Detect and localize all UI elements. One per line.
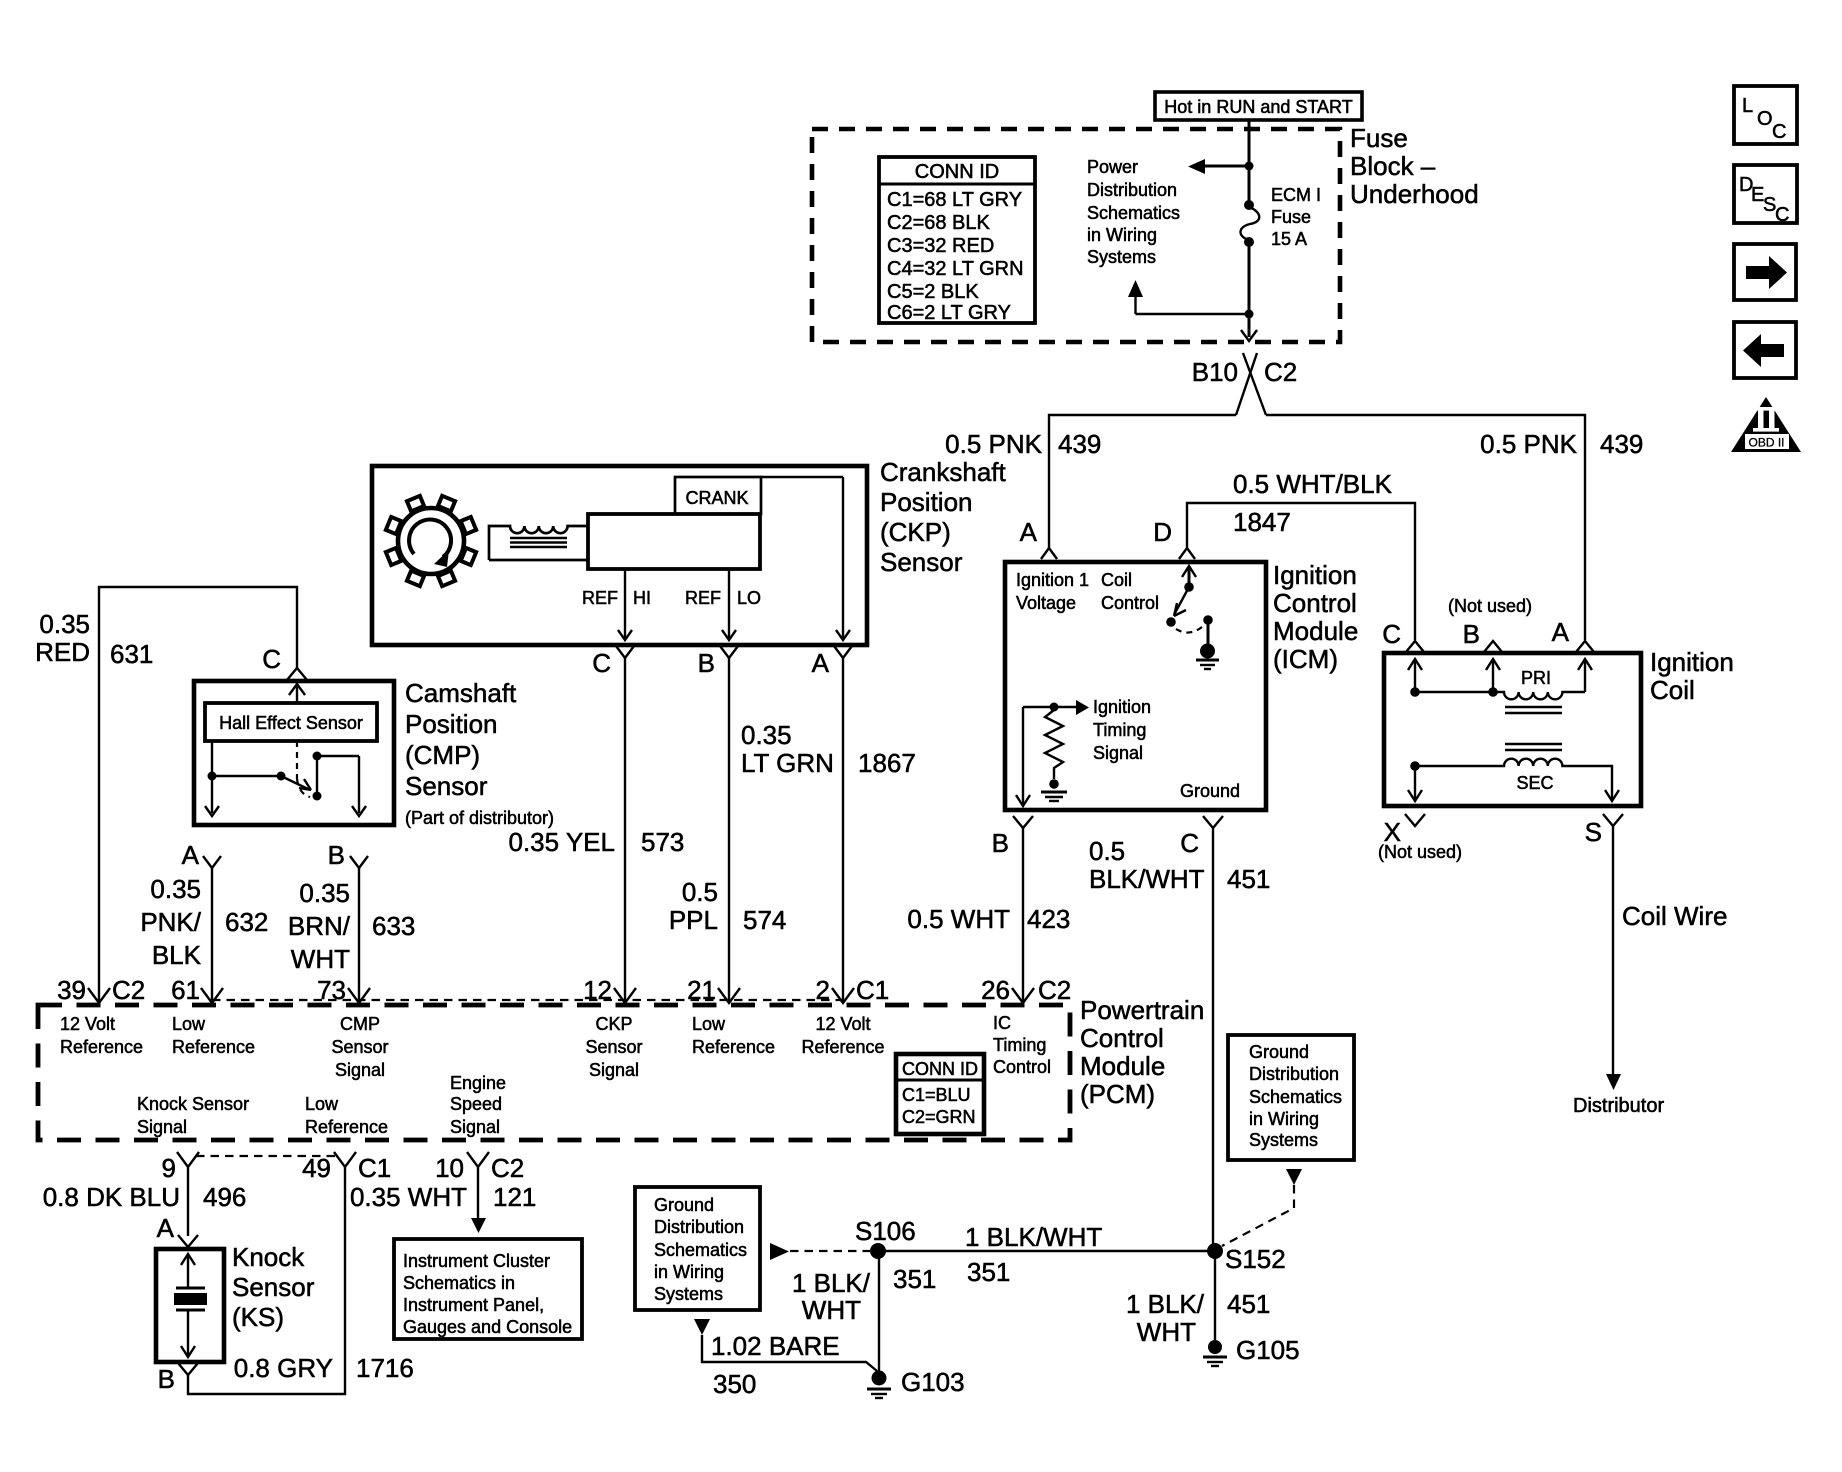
svg-text:C: C: [262, 644, 281, 674]
svg-text:Knock Sensor: Knock Sensor: [137, 1094, 249, 1114]
svg-text:Camshaft: Camshaft: [405, 678, 517, 708]
svg-text:C: C: [1180, 828, 1199, 858]
svg-text:(CMP): (CMP): [405, 740, 480, 770]
svg-text:Coil Wire: Coil Wire: [1622, 901, 1727, 931]
svg-text:Reference: Reference: [801, 1037, 884, 1057]
svg-text:Hot in RUN and START: Hot in RUN and START: [1164, 97, 1352, 117]
svg-text:CONN ID: CONN ID: [902, 1059, 978, 1079]
svg-text:0.35: 0.35: [39, 609, 90, 639]
svg-text:C2: C2: [491, 1153, 524, 1183]
svg-text:Systems: Systems: [654, 1284, 723, 1304]
svg-text:Hall Effect Sensor: Hall Effect Sensor: [219, 713, 363, 733]
svg-text:21: 21: [687, 975, 716, 1005]
svg-text:Distribution: Distribution: [654, 1217, 744, 1237]
svg-text:PNK/: PNK/: [140, 907, 201, 937]
svg-text:Systems: Systems: [1249, 1130, 1318, 1150]
svg-text:B: B: [328, 840, 345, 870]
svg-text:CRANK: CRANK: [685, 488, 748, 508]
svg-text:ECM I: ECM I: [1271, 185, 1321, 205]
svg-text:in Wiring: in Wiring: [654, 1262, 724, 1282]
svg-text:B: B: [158, 1364, 175, 1394]
svg-text:0.5 WHT: 0.5 WHT: [907, 904, 1010, 934]
svg-text:631: 631: [110, 639, 153, 669]
svg-text:Ignition: Ignition: [1650, 647, 1734, 677]
svg-text:PPL: PPL: [669, 905, 718, 935]
svg-text:Voltage: Voltage: [1016, 593, 1076, 613]
svg-text:Position: Position: [405, 709, 498, 739]
svg-text:15 A: 15 A: [1271, 229, 1307, 249]
svg-text:Gauges and Console: Gauges and Console: [403, 1317, 572, 1337]
svg-text:Block –: Block –: [1350, 151, 1436, 181]
svg-text:A: A: [1020, 517, 1038, 547]
svg-text:Reference: Reference: [692, 1037, 775, 1057]
svg-text:S106: S106: [855, 1216, 916, 1246]
svg-text:Instrument Cluster: Instrument Cluster: [403, 1251, 550, 1271]
svg-text:PRI: PRI: [1521, 668, 1551, 688]
svg-text:C5=2 BLK: C5=2 BLK: [887, 281, 979, 303]
svg-text:423: 423: [1027, 904, 1070, 934]
svg-text:0.5 WHT/BLK: 0.5 WHT/BLK: [1233, 469, 1393, 499]
svg-text:C: C: [1775, 204, 1789, 226]
svg-text:(Not used): (Not used): [1378, 842, 1462, 862]
svg-text:Signal: Signal: [1093, 743, 1143, 763]
svg-text:Speed: Speed: [450, 1094, 502, 1114]
svg-text:Signal: Signal: [335, 1060, 385, 1080]
svg-text:C4=32 LT GRN: C4=32 LT GRN: [887, 258, 1024, 280]
svg-text:Coil: Coil: [1101, 570, 1132, 590]
svg-text:C1: C1: [856, 975, 889, 1005]
svg-text:RED: RED: [35, 637, 90, 667]
svg-text:Schematics: Schematics: [1249, 1087, 1342, 1107]
svg-text:A: A: [182, 840, 200, 870]
svg-text:(KS): (KS): [232, 1302, 284, 1332]
svg-text:Signal: Signal: [137, 1117, 187, 1137]
svg-text:in Wiring: in Wiring: [1087, 225, 1157, 245]
svg-text:Module: Module: [1273, 616, 1358, 646]
svg-text:(Not used): (Not used): [1448, 596, 1532, 616]
svg-text:451: 451: [1227, 864, 1270, 894]
svg-text:1 BLK/WHT: 1 BLK/WHT: [965, 1222, 1102, 1252]
svg-text:0.5: 0.5: [682, 877, 718, 907]
svg-text:B10: B10: [1192, 357, 1238, 387]
svg-text:Ground: Ground: [1180, 781, 1240, 801]
svg-text:10: 10: [435, 1153, 464, 1183]
svg-text:Instrument Panel,: Instrument Panel,: [403, 1295, 544, 1315]
svg-text:351: 351: [893, 1264, 936, 1294]
svg-text:(ICM): (ICM): [1273, 644, 1338, 674]
svg-text:Underhood: Underhood: [1350, 179, 1479, 209]
svg-text:D: D: [1153, 517, 1172, 547]
svg-text:IC: IC: [993, 1013, 1011, 1033]
svg-text:S152: S152: [1225, 1244, 1286, 1274]
svg-text:C1=68 LT GRY: C1=68 LT GRY: [887, 189, 1022, 211]
svg-text:Distribution: Distribution: [1249, 1064, 1339, 1084]
svg-text:Reference: Reference: [305, 1117, 388, 1137]
svg-text:BLK: BLK: [152, 940, 202, 970]
svg-text:C1: C1: [358, 1153, 391, 1183]
svg-text:574: 574: [743, 905, 786, 935]
svg-text:Crankshaft: Crankshaft: [880, 457, 1006, 487]
svg-text:LO: LO: [737, 588, 761, 608]
svg-text:Control: Control: [1273, 588, 1357, 618]
svg-text:BRN/: BRN/: [288, 911, 351, 941]
svg-text:Powertrain: Powertrain: [1080, 995, 1204, 1025]
svg-text:Knock: Knock: [232, 1242, 305, 1272]
svg-text:Reference: Reference: [60, 1037, 143, 1057]
svg-text:Module: Module: [1080, 1051, 1165, 1081]
svg-text:Systems: Systems: [1087, 247, 1156, 267]
svg-text:439: 439: [1600, 429, 1643, 459]
svg-text:Timing: Timing: [993, 1035, 1046, 1055]
svg-text:0.5 PNK: 0.5 PNK: [1480, 429, 1577, 459]
svg-text:2: 2: [816, 975, 830, 1005]
svg-text:1847: 1847: [1233, 507, 1291, 537]
svg-text:OBD II: OBD II: [1748, 436, 1784, 450]
svg-text:Distribution: Distribution: [1087, 180, 1177, 200]
svg-text:49: 49: [302, 1153, 331, 1183]
svg-text:0.35: 0.35: [150, 874, 201, 904]
svg-text:121: 121: [493, 1182, 536, 1212]
svg-text:Ground: Ground: [654, 1195, 714, 1215]
svg-text:12 Volt: 12 Volt: [60, 1014, 115, 1034]
svg-text:351: 351: [967, 1257, 1010, 1287]
svg-text:Position: Position: [880, 487, 973, 517]
svg-text:WHT: WHT: [291, 944, 350, 974]
svg-text:C1=BLU: C1=BLU: [902, 1085, 971, 1105]
svg-text:Signal: Signal: [450, 1117, 500, 1137]
svg-text:B: B: [1463, 619, 1480, 649]
svg-text:Sensor: Sensor: [585, 1037, 642, 1057]
svg-text:C2=68 BLK: C2=68 BLK: [887, 212, 991, 234]
svg-text:S: S: [1585, 817, 1602, 847]
svg-text:0.8 DK BLU: 0.8 DK BLU: [43, 1182, 180, 1212]
svg-text:9: 9: [162, 1153, 176, 1183]
svg-text:L: L: [1742, 95, 1753, 117]
svg-text:0.35 WHT: 0.35 WHT: [350, 1182, 467, 1212]
svg-text:C2: C2: [112, 975, 145, 1005]
svg-text:Sensor: Sensor: [880, 547, 963, 577]
svg-text:Sensor: Sensor: [232, 1272, 315, 1302]
svg-text:39: 39: [57, 975, 86, 1005]
svg-text:C2: C2: [1038, 975, 1071, 1005]
svg-text:439: 439: [1058, 429, 1101, 459]
svg-text:Ignition 1: Ignition 1: [1016, 570, 1089, 590]
svg-text:BLK/WHT: BLK/WHT: [1089, 864, 1205, 894]
svg-text:12: 12: [583, 975, 612, 1005]
svg-text:A: A: [1552, 617, 1570, 647]
svg-text:1716: 1716: [356, 1353, 414, 1383]
svg-text:1 BLK/: 1 BLK/: [792, 1268, 871, 1298]
svg-text:C6=2 LT GRY: C6=2 LT GRY: [887, 302, 1011, 324]
svg-text:Low: Low: [305, 1094, 339, 1114]
svg-text:Sensor: Sensor: [331, 1037, 388, 1057]
svg-text:C: C: [592, 648, 611, 678]
svg-text:A: A: [157, 1213, 175, 1243]
svg-text:LT GRN: LT GRN: [741, 748, 834, 778]
svg-text:Signal: Signal: [589, 1060, 639, 1080]
svg-text:C2=GRN: C2=GRN: [902, 1107, 976, 1127]
svg-text:Control: Control: [1080, 1023, 1164, 1053]
svg-text:Fuse: Fuse: [1350, 123, 1408, 153]
svg-text:0.8 GRY: 0.8 GRY: [234, 1353, 333, 1383]
svg-text:REF: REF: [582, 588, 618, 608]
svg-text:G105: G105: [1236, 1335, 1300, 1365]
svg-text:0.5: 0.5: [1089, 836, 1125, 866]
svg-text:A: A: [812, 648, 830, 678]
svg-text:12 Volt: 12 Volt: [815, 1014, 870, 1034]
svg-text:Low: Low: [172, 1014, 206, 1034]
svg-text:Schematics: Schematics: [1087, 203, 1180, 223]
svg-text:Low: Low: [692, 1014, 726, 1034]
svg-text:632: 632: [225, 907, 268, 937]
svg-text:633: 633: [372, 911, 415, 941]
svg-text:1867: 1867: [858, 748, 916, 778]
svg-text:(PCM): (PCM): [1080, 1079, 1155, 1109]
svg-text:Engine: Engine: [450, 1073, 506, 1093]
svg-text:Coil: Coil: [1650, 675, 1695, 705]
svg-text:Timing: Timing: [1093, 720, 1146, 740]
svg-text:496: 496: [203, 1182, 246, 1212]
svg-text:CMP: CMP: [340, 1014, 380, 1034]
svg-text:C2: C2: [1264, 357, 1297, 387]
svg-text:350: 350: [713, 1369, 756, 1399]
svg-text:B: B: [992, 828, 1009, 858]
svg-text:0.35: 0.35: [299, 878, 350, 908]
svg-text:0.5 PNK: 0.5 PNK: [945, 429, 1042, 459]
svg-text:C3=32 RED: C3=32 RED: [887, 235, 994, 257]
svg-text:573: 573: [641, 827, 684, 857]
svg-text:HI: HI: [633, 588, 651, 608]
svg-text:0.35: 0.35: [741, 720, 792, 750]
svg-text:B: B: [698, 648, 715, 678]
svg-text:Schematics: Schematics: [654, 1240, 747, 1260]
svg-text:G103: G103: [901, 1367, 965, 1397]
svg-text:(Part of distributor): (Part of distributor): [405, 808, 554, 828]
svg-text:C: C: [1772, 121, 1786, 143]
svg-text:0.35 YEL: 0.35 YEL: [508, 827, 615, 857]
svg-text:(CKP): (CKP): [880, 517, 951, 547]
svg-text:CKP: CKP: [595, 1014, 632, 1034]
svg-text:Control: Control: [1101, 593, 1159, 613]
svg-text:C: C: [1382, 619, 1401, 649]
svg-text:451: 451: [1227, 1289, 1270, 1319]
svg-text:Reference: Reference: [172, 1037, 255, 1057]
svg-text:WHT: WHT: [802, 1295, 861, 1325]
svg-text:61: 61: [171, 975, 200, 1005]
svg-text:Control: Control: [993, 1057, 1051, 1077]
svg-text:Ground: Ground: [1249, 1042, 1309, 1062]
svg-text:Sensor: Sensor: [405, 771, 488, 801]
svg-text:SEC: SEC: [1516, 773, 1553, 793]
svg-text:Distributor: Distributor: [1573, 1095, 1664, 1117]
svg-text:CONN ID: CONN ID: [915, 161, 999, 183]
svg-text:1.02 BARE: 1.02 BARE: [711, 1331, 840, 1361]
svg-text:O: O: [1757, 108, 1773, 130]
svg-text:Fuse: Fuse: [1271, 207, 1311, 227]
svg-text:Power: Power: [1087, 157, 1138, 177]
svg-text:in Wiring: in Wiring: [1249, 1109, 1319, 1129]
svg-text:1 BLK/: 1 BLK/: [1126, 1289, 1205, 1319]
svg-text:Schematics in: Schematics in: [403, 1273, 515, 1293]
svg-text:Ignition: Ignition: [1273, 560, 1357, 590]
svg-text:73: 73: [317, 975, 346, 1005]
svg-text:REF: REF: [685, 588, 721, 608]
svg-text:WHT: WHT: [1137, 1317, 1196, 1347]
svg-text:Ignition: Ignition: [1093, 697, 1151, 717]
svg-text:26: 26: [981, 975, 1010, 1005]
